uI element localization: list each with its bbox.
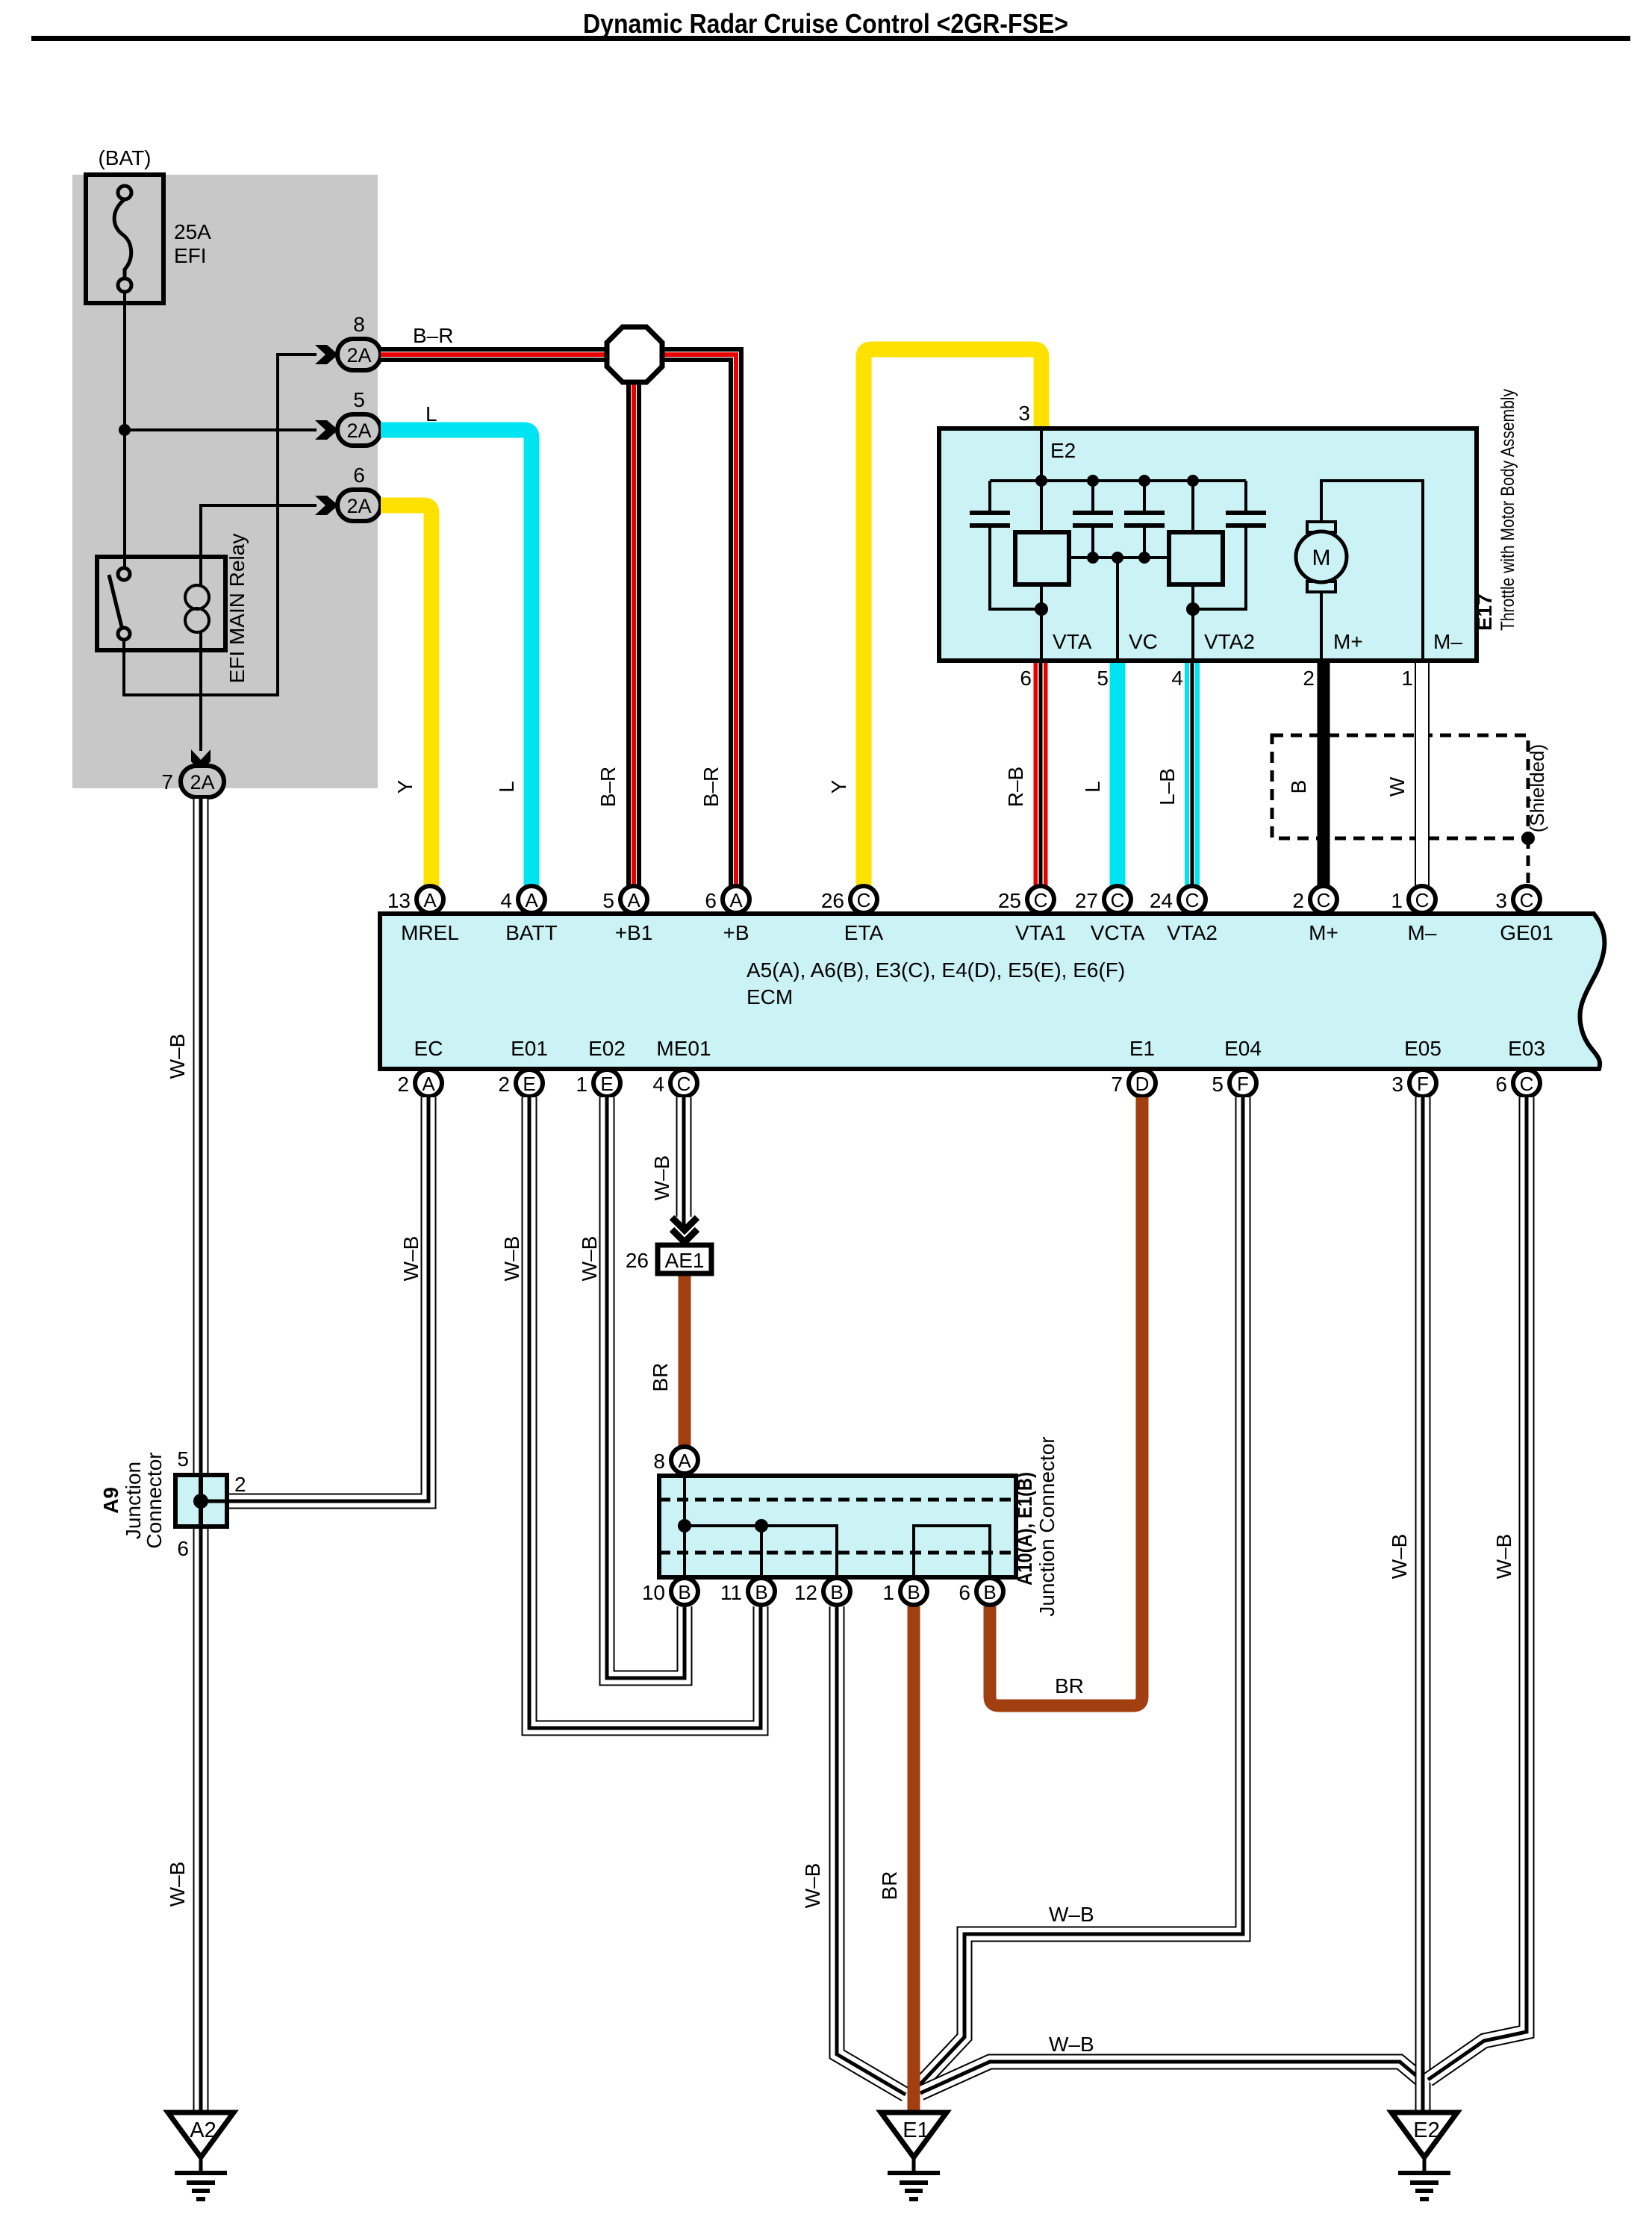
svg-text:6: 6 — [1495, 1073, 1507, 1096]
connector 2A pin7 — [181, 766, 224, 797]
svg-text:5: 5 — [353, 388, 365, 411]
svg-text:8: 8 — [653, 1450, 665, 1473]
svg-text:E03: E03 — [1508, 1037, 1545, 1060]
svg-text:E2: E2 — [1050, 439, 1076, 462]
svg-text:A2: A2 — [190, 2118, 216, 2142]
wire motor leads — [1321, 481, 1423, 661]
junction pin 12(B) — [794, 1578, 850, 1605]
ECM bottom pin E05 3(F) — [1391, 1037, 1441, 1097]
svg-text:A9: A9 — [99, 1487, 122, 1514]
wire L throttle VC to ECM VCTA — [1110, 661, 1126, 888]
svg-text:B: B — [755, 1581, 767, 1603]
throttle body E17 box — [939, 428, 1477, 661]
svg-text:BR: BR — [878, 1871, 901, 1900]
svg-text:4: 4 — [652, 1073, 664, 1096]
svg-text:Y: Y — [393, 779, 417, 793]
node dots junction — [678, 1519, 691, 1532]
wire W-B ME01 to AE1 — [676, 1097, 692, 1228]
svg-text:ME01: ME01 — [656, 1037, 711, 1060]
title rule — [31, 36, 1630, 41]
svg-text:A5(A), A6(B), E3(C), E4(D), E5: A5(A), A6(B), E3(C), E4(D), E5(E), E6(F) — [746, 958, 1125, 982]
svg-text:7: 7 — [1111, 1073, 1123, 1096]
svg-text:C: C — [857, 889, 871, 911]
gray background panel — [72, 175, 378, 788]
svg-text:Junction Connector: Junction Connector — [1035, 1436, 1059, 1616]
wire W throttle M- to ECM M- — [1415, 661, 1430, 888]
wire junction internal 11B drop — [760, 1526, 763, 1577]
svg-text:W–B: W–B — [166, 1034, 189, 1079]
svg-text:B: B — [678, 1581, 691, 1603]
wire W-B E05 to ground E2 — [1415, 1097, 1431, 2112]
svg-text:6: 6 — [353, 464, 365, 487]
svg-text:W–B: W–B — [1388, 1534, 1411, 1580]
svg-text:3: 3 — [1391, 1073, 1403, 1096]
ground E1 — [881, 2112, 947, 2199]
wire B-R from 2A pin8 to noise filter — [381, 347, 611, 362]
svg-text:BATT: BATT — [505, 921, 557, 944]
svg-text:1: 1 — [1401, 667, 1413, 690]
svg-text:4: 4 — [500, 889, 512, 912]
svg-text:(Shielded): (Shielded) — [1526, 744, 1548, 833]
svg-text:Junction: Junction — [122, 1462, 145, 1539]
svg-text:Y: Y — [827, 779, 850, 793]
svg-text:E04: E04 — [1224, 1037, 1262, 1060]
svg-text:(BAT): (BAT) — [98, 146, 151, 169]
svg-text:Throttle with Motor Body Assem: Throttle with Motor Body Assembly — [1497, 389, 1518, 631]
wire B-R from noise filter to ECM +B — [658, 355, 736, 888]
svg-text:M: M — [1312, 546, 1331, 570]
capacitor c2 — [1091, 481, 1094, 558]
svg-text:5: 5 — [177, 1447, 189, 1471]
connector 2A pin6 — [337, 490, 381, 521]
wire E2 lead — [1040, 428, 1043, 532]
svg-text:6: 6 — [705, 889, 717, 912]
svg-text:2A: 2A — [346, 344, 371, 367]
junction connector A9 box — [175, 1475, 227, 1527]
svg-text:C: C — [677, 1073, 691, 1095]
noise filter octagon — [607, 327, 662, 382]
wire W-B E04 to ground E1 — [918, 1097, 1243, 2086]
svg-text:W–B: W–B — [166, 1862, 189, 1907]
svg-text:24: 24 — [1150, 889, 1173, 912]
ECM top pin M+ 2(C) — [1292, 886, 1338, 944]
wire VTA2 lead — [1191, 481, 1194, 661]
svg-text:1: 1 — [1391, 889, 1403, 912]
svg-text:EFI: EFI — [174, 244, 207, 267]
ECM bottom pin E1 7(D) — [1111, 1037, 1156, 1097]
svg-text:6: 6 — [177, 1537, 189, 1560]
svg-text:BR: BR — [1055, 1674, 1084, 1697]
svg-text:M+: M+ — [1333, 630, 1363, 653]
svg-text:+B1: +B1 — [615, 921, 653, 944]
wire B throttle M+ to ECM M+ — [1318, 661, 1330, 888]
wire L-B throttle VTA2 to ECM VTA2 — [1185, 661, 1200, 888]
svg-text:ETA: ETA — [844, 921, 884, 944]
wire BR junction 1(B) to ground E1 — [908, 1606, 920, 2112]
junction pin 10(B) — [642, 1578, 698, 1605]
svg-text:B: B — [983, 1581, 996, 1603]
svg-text:C: C — [1520, 1073, 1534, 1095]
ECM top pin +B1 5(A) — [602, 886, 652, 944]
svg-text:D: D — [1135, 1073, 1150, 1095]
ECM top pin VTA2 24(C) — [1150, 886, 1218, 944]
svg-text:B: B — [907, 1581, 920, 1603]
svg-text:L: L — [495, 781, 518, 793]
svg-text:1: 1 — [882, 1581, 894, 1604]
junction pin 8(A) — [653, 1447, 698, 1474]
wire W-B main 2A pin7 to ground A2 — [193, 799, 209, 2112]
wire W-B E01 to junction 11(B) — [529, 1097, 761, 1728]
svg-text:W–B: W–B — [1492, 1534, 1515, 1580]
svg-text:VCTA: VCTA — [1091, 921, 1145, 944]
svg-text:C: C — [1185, 889, 1200, 911]
svg-text:13: 13 — [387, 889, 411, 912]
svg-text:A: A — [423, 889, 437, 911]
svg-text:Connector: Connector — [143, 1452, 166, 1548]
svg-text:E17: E17 — [1473, 593, 1496, 631]
wire BR AE1 to junction 8(A) — [679, 1273, 691, 1446]
junction pin 11(B) — [720, 1578, 775, 1605]
svg-text:W–B: W–B — [801, 1863, 824, 1909]
svg-text:3: 3 — [1018, 402, 1030, 425]
svg-text:B: B — [1287, 780, 1310, 794]
svg-text:C: C — [1034, 889, 1048, 911]
wire L from 2A pin5 to ECM BATT — [381, 430, 532, 888]
svg-text:6: 6 — [959, 1581, 970, 1604]
ECM bottom pin E03 6(C) — [1495, 1037, 1545, 1097]
ECM top pin ETA 26(C) — [821, 886, 884, 944]
svg-text:25: 25 — [998, 889, 1021, 912]
svg-text:M–: M– — [1408, 921, 1437, 944]
ECM top pin MREL 13(A) — [387, 886, 459, 944]
ECM bottom pin EC 2(A) — [397, 1037, 443, 1097]
svg-text:E02: E02 — [588, 1037, 626, 1060]
ECM top pin BATT 4(A) — [500, 886, 557, 944]
node junction dot — [119, 424, 131, 436]
connector 2A pin8 — [337, 339, 381, 370]
ground A2 — [168, 2112, 234, 2199]
connector arrow pin6 — [315, 496, 338, 515]
svg-text:1: 1 — [576, 1073, 587, 1096]
sensor element 1 — [1015, 532, 1069, 584]
wire W-B link ground E1 to ground E2 — [920, 2062, 1423, 2093]
svg-text:5: 5 — [602, 889, 614, 912]
svg-text:5: 5 — [1097, 667, 1109, 690]
svg-text:L: L — [426, 402, 437, 425]
junction pin 1(B) — [882, 1578, 927, 1605]
ECM bottom pin E04 5(F) — [1212, 1037, 1261, 1097]
svg-text:A: A — [525, 889, 538, 911]
wire relay coil top to 2A pin6 — [201, 505, 317, 557]
wire relay coil bottom to 2A pin7 — [199, 650, 202, 751]
connector arrow pin5 — [315, 420, 338, 440]
svg-text:M+: M+ — [1309, 921, 1338, 944]
svg-text:AE1: AE1 — [665, 1249, 705, 1272]
svg-text:Dynamic Radar Cruise Control <: Dynamic Radar Cruise Control <2GR-FSE> — [583, 8, 1068, 39]
relay EFI MAIN Relay — [97, 557, 225, 650]
wire VTA lead — [1040, 584, 1043, 661]
svg-text:E1: E1 — [903, 2118, 929, 2142]
svg-text:12: 12 — [794, 1581, 817, 1604]
AE1 arrow (double chevron) — [672, 1217, 697, 1230]
svg-text:2A: 2A — [346, 420, 371, 442]
svg-text:2A: 2A — [190, 771, 214, 793]
svg-text:L: L — [1081, 781, 1104, 793]
ECM top pin +B 6(A) — [705, 886, 749, 944]
connector arrow pin7 (down) — [191, 749, 211, 773]
svg-text:5: 5 — [1212, 1073, 1224, 1096]
svg-text:VC: VC — [1129, 630, 1158, 653]
svg-text:VTA2: VTA2 — [1204, 630, 1255, 653]
svg-text:VTA: VTA — [1053, 630, 1092, 653]
svg-text:A: A — [678, 1450, 691, 1472]
svg-text:E: E — [523, 1073, 535, 1095]
sensor element 2 — [1169, 532, 1223, 584]
svg-text:10: 10 — [642, 1581, 665, 1604]
wire junction to 2A pin5 — [125, 428, 317, 431]
svg-text:2A: 2A — [346, 495, 371, 517]
wire junction internal 8A-10B — [683, 1476, 686, 1577]
svg-text:E01: E01 — [511, 1037, 548, 1060]
svg-text:B–R: B–R — [699, 767, 723, 807]
svg-text:F: F — [1237, 1073, 1249, 1095]
svg-text:26: 26 — [626, 1249, 649, 1272]
svg-text:7: 7 — [161, 770, 173, 793]
svg-text:2: 2 — [234, 1473, 246, 1496]
svg-text:E2: E2 — [1413, 2118, 1439, 2142]
connector arrow pin8 — [315, 345, 338, 364]
svg-text:2: 2 — [397, 1073, 409, 1096]
svg-text:A10(A), E1(B): A10(A), E1(B) — [1013, 1472, 1036, 1585]
wire internal bus — [990, 479, 1246, 482]
svg-text:W–B: W–B — [1049, 2033, 1094, 2056]
svg-text:BR: BR — [649, 1363, 672, 1392]
connector AE1 — [658, 1245, 711, 1273]
svg-text:E: E — [600, 1073, 613, 1095]
svg-text:B–R: B–R — [596, 767, 620, 807]
svg-text:E05: E05 — [1404, 1037, 1441, 1060]
svg-text:GE01: GE01 — [1500, 921, 1553, 944]
svg-text:W–B: W–B — [650, 1156, 673, 1201]
motor M — [1307, 522, 1335, 532]
wire B-R from noise filter to ECM +B1 — [626, 382, 641, 888]
wire relay switch to 2A pin8 — [124, 355, 317, 695]
svg-text:B: B — [830, 1581, 843, 1603]
svg-text:EC: EC — [414, 1037, 443, 1060]
svg-text:EFI MAIN Relay: EFI MAIN Relay — [225, 534, 249, 684]
svg-text:W–B: W–B — [578, 1236, 601, 1282]
svg-text:W–B: W–B — [500, 1236, 523, 1282]
svg-text:A: A — [729, 889, 743, 911]
wire R-B throttle VTA to ECM VTA1 — [1034, 661, 1048, 888]
svg-text:C: C — [1111, 889, 1125, 911]
node dot A9 — [193, 1494, 208, 1509]
svg-text:VTA1: VTA1 — [1015, 921, 1066, 944]
svg-text:ECM: ECM — [746, 985, 793, 1008]
svg-text:B–R: B–R — [413, 324, 453, 347]
svg-text:25A: 25A — [174, 220, 211, 243]
svg-text:4: 4 — [1171, 667, 1183, 690]
wire W-B E03 to ground E2 — [1428, 1097, 1527, 2080]
svg-text:W–B: W–B — [399, 1236, 423, 1282]
ECM bottom pin E02 1(E) — [576, 1037, 625, 1097]
ECM top pin M- 1(C) — [1391, 886, 1436, 944]
svg-text:+B: +B — [723, 921, 749, 944]
capacitor c3 — [1143, 481, 1146, 558]
fuse 25A EFI — [86, 175, 163, 303]
svg-text:F: F — [1417, 1073, 1429, 1095]
connector 2A pin5 — [337, 414, 381, 446]
svg-text:6: 6 — [1020, 667, 1032, 690]
svg-text:3: 3 — [1495, 889, 1507, 912]
svg-text:W–B: W–B — [1049, 1903, 1094, 1926]
wire W-B junction 12(B) to ground E1 — [837, 1606, 906, 2095]
svg-text:A: A — [627, 889, 640, 911]
junction pin 6(B) — [959, 1578, 1003, 1605]
svg-text:26: 26 — [821, 889, 844, 912]
ECM bottom pin ME01 4(C) — [652, 1037, 711, 1097]
svg-text:A: A — [422, 1073, 435, 1095]
svg-text:M–: M– — [1433, 630, 1462, 653]
svg-text:2: 2 — [498, 1073, 510, 1096]
svg-text:VTA2: VTA2 — [1167, 921, 1218, 944]
wire Y from 2A pin6 to ECM MREL — [381, 505, 431, 888]
svg-text:W: W — [1386, 776, 1409, 796]
wire W-B E02 to junction 10(B) — [607, 1097, 685, 1678]
capacitor c4 — [1193, 481, 1246, 609]
ECM box — [380, 914, 1604, 1069]
wire BR ECM E1 to junction 6(B) — [990, 1097, 1142, 1706]
ECM top pin VTA1 25(C) — [998, 886, 1066, 944]
wire junction internal bridge right — [914, 1526, 990, 1577]
wire sensor mid link — [1069, 556, 1170, 559]
svg-text:27: 27 — [1075, 889, 1098, 912]
wire W-B EC to A9 — [227, 1097, 428, 1501]
svg-text:R–B: R–B — [1004, 767, 1027, 807]
svg-text:8: 8 — [353, 313, 365, 336]
svg-text:C: C — [1520, 889, 1534, 911]
shield dashed box around B and W wires — [1272, 735, 1535, 885]
wire fuse to relay — [123, 292, 126, 570]
svg-text:MREL: MREL — [401, 921, 459, 944]
svg-text:2: 2 — [1303, 667, 1315, 690]
node dots in throttle — [1035, 475, 1200, 616]
wire junction internal bus left — [685, 1526, 837, 1577]
ECM top pin VCTA 27(C) — [1075, 886, 1145, 944]
svg-text:E1: E1 — [1129, 1037, 1155, 1060]
junction connector A10/E1 box — [659, 1476, 1016, 1577]
ECM top pin GE01 3(C) — [1495, 886, 1553, 944]
svg-text:C: C — [1415, 889, 1430, 911]
capacitor c1 — [990, 481, 1041, 609]
svg-text:11: 11 — [720, 1581, 742, 1604]
wire VC lead — [1116, 558, 1119, 661]
svg-text:L–B: L–B — [1156, 768, 1179, 805]
wire Y from ECM ETA to throttle E2 — [864, 349, 1041, 888]
svg-text:2: 2 — [1292, 889, 1304, 912]
ground E2 — [1391, 2112, 1457, 2199]
ECM bottom pin E01 2(E) — [498, 1037, 547, 1097]
svg-text:C: C — [1317, 889, 1331, 911]
